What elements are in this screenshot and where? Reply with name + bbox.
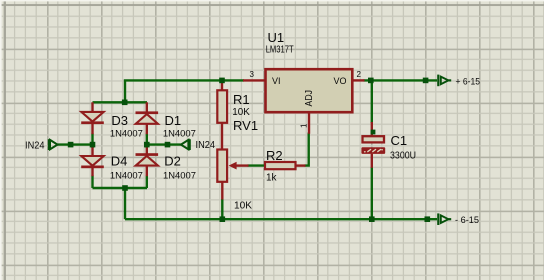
svg-text:1N4007: 1N4007 [163, 129, 196, 140]
svg-text:D2: D2 [164, 154, 181, 169]
svg-text:U1: U1 [268, 30, 285, 45]
svg-text:IN24: IN24 [196, 139, 216, 151]
svg-text:2: 2 [357, 70, 362, 79]
svg-text:3300U: 3300U [390, 151, 416, 162]
svg-text:D4: D4 [111, 154, 128, 169]
svg-text:1N4007: 1N4007 [163, 171, 196, 182]
svg-text:ADJ: ADJ [303, 90, 315, 107]
svg-text:C1: C1 [391, 133, 408, 148]
svg-text:1N4007: 1N4007 [110, 171, 143, 182]
svg-text:IN24: IN24 [25, 140, 45, 152]
svg-text:R2: R2 [266, 148, 283, 163]
svg-text:10K: 10K [234, 201, 252, 212]
svg-text:D1: D1 [165, 113, 182, 128]
svg-text:+ 6-15: + 6-15 [456, 76, 481, 87]
svg-text:3: 3 [250, 70, 255, 79]
svg-text:LM317T: LM317T [266, 45, 294, 56]
svg-text:- 6-15: - 6-15 [455, 215, 479, 226]
svg-text:VI: VI [272, 76, 281, 86]
svg-text:1: 1 [300, 123, 309, 128]
svg-text:1N4007: 1N4007 [110, 129, 143, 140]
svg-text:D3: D3 [111, 113, 128, 128]
svg-text:R1: R1 [233, 92, 250, 107]
svg-text:VO: VO [334, 76, 347, 86]
svg-text:RV1: RV1 [233, 118, 258, 133]
svg-text:10K: 10K [232, 107, 250, 118]
svg-text:1k: 1k [266, 173, 278, 184]
